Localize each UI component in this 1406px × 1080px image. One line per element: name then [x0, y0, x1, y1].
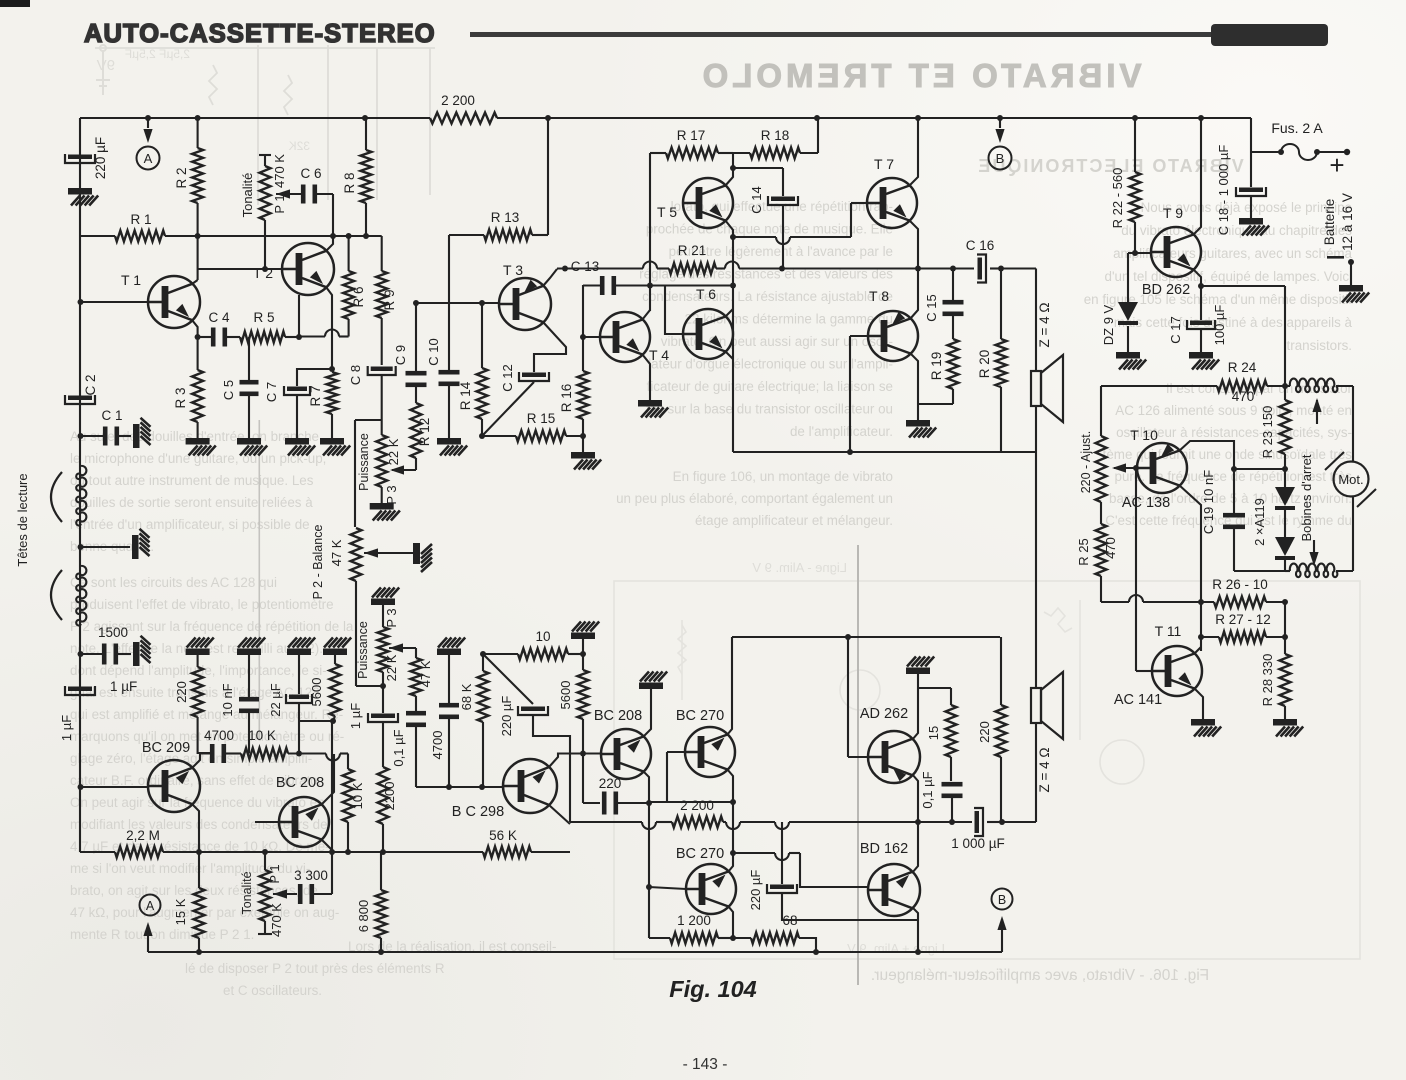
inverted ground 220 branch [186, 638, 214, 656]
wire T3 emitter [534, 322, 566, 372]
capacitor C6 [301, 185, 306, 204]
wire R12 to P3 wiper [392, 469, 416, 471]
resistor R16 [582, 337, 584, 371]
wire R5 line to R6 [299, 335, 325, 337]
node A lower with arrow [140, 895, 161, 916]
ground below R3 [186, 438, 216, 456]
svg-text:R 9: R 9 [382, 289, 397, 310]
wire T2 emitter stub to R5 node [298, 295, 300, 337]
wire BD162 emitter [912, 907, 918, 952]
potentiometer P3 lower Puissance 22K [382, 605, 384, 627]
transistor T10 AC138 [1137, 443, 1187, 493]
wire BC208a collector [321, 754, 334, 805]
capacitor 4700 first [210, 744, 215, 763]
ground below T11 [1191, 719, 1221, 737]
svg-text:22 µF: 22 µF [268, 683, 283, 717]
wire T7 base step [851, 202, 867, 204]
node A with arrow [147, 118, 149, 128]
bleed ghost figure frame lower right [614, 581, 1360, 959]
wire BC298 base line [416, 786, 504, 788]
svg-text:R 15: R 15 [527, 411, 556, 426]
wire T5 emitter rail [725, 220, 733, 237]
svg-text:BC 270: BC 270 [676, 846, 724, 862]
svg-text:Ce sont les circuits des AC 12: Ce sont les circuits des AC 128 qui [70, 575, 277, 590]
svg-text:1 µF: 1 µF [59, 715, 74, 741]
svg-text:lé de disposer P 2 tout près d: lé de disposer P 2 tout près des élément… [185, 961, 445, 976]
resistor R5 [240, 332, 285, 343]
bleed ghost wires top left [95, 45, 435, 205]
wire bottom rail upper block [733, 451, 1036, 453]
svg-text:P 1: P 1 [267, 864, 282, 883]
wire T9 emitter node [1193, 269, 1201, 286]
wire lower bias line R26 [1101, 601, 1129, 603]
wire speaker bus right [1035, 406, 1037, 688]
svg-text:0,1 µF: 0,1 µF [391, 729, 406, 766]
capacitor C10 [439, 370, 460, 375]
svg-text:470: 470 [1232, 389, 1255, 404]
svg-text:En figure 106, un montage de v: En figure 106, un montage de vibrato [673, 469, 893, 484]
wire BC298 collector [549, 754, 600, 768]
svg-text:T 4: T 4 [649, 347, 669, 363]
resistor 220 output [1000, 637, 1002, 705]
transistor T5 [683, 178, 733, 228]
wire lower speaker to rail [1035, 723, 1037, 822]
wire R17 R18 junction to C14 [732, 153, 734, 168]
wire C13 to T4 base column [582, 285, 584, 337]
potentiometer P3 Puissance 22K upper [376, 435, 387, 487]
wire T7 emitter [909, 220, 918, 269]
svg-text:BD 162: BD 162 [860, 841, 908, 857]
svg-text:ou tout autre instrument de mu: ou tout autre instrument de musique. Les [70, 473, 314, 488]
ground below C5 [237, 438, 267, 456]
wire between heads [80, 546, 130, 548]
wire R24 line [1101, 385, 1217, 387]
inverted ground 10-5600 node [571, 622, 599, 640]
svg-text:R 25: R 25 [1076, 538, 1091, 565]
svg-text:T 9: T 9 [1163, 205, 1183, 221]
inverted ground BC208b [639, 672, 667, 690]
svg-text:fait sur la base du transistor: fait sur la base du transistor oscillate… [646, 402, 893, 417]
svg-text:R 12: R 12 [417, 418, 432, 447]
svg-text:4700: 4700 [204, 728, 234, 743]
resistor R1 [80, 235, 115, 237]
wire T5 emitter to T7 base line [733, 236, 776, 238]
wire T1 base [80, 301, 148, 303]
wire T3 collector [543, 269, 557, 286]
ground below DZ9V [1116, 352, 1146, 370]
ground below C18 [1239, 218, 1269, 236]
svg-text:BC 208: BC 208 [276, 775, 324, 791]
svg-text:220 µF: 220 µF [93, 137, 108, 179]
battery minus terminal [1327, 256, 1344, 259]
capacitor 0.1uF output [950, 757, 952, 781]
wire R21 line [557, 267, 643, 269]
svg-text:2,5µF 2,5µF: 2,5µF 2,5µF [125, 47, 190, 61]
node B lower with arrow [992, 889, 1013, 910]
resistor R23 150 [1284, 386, 1286, 400]
capacitor C19 10nF [1233, 469, 1235, 513]
resistor 10K horizontal [241, 748, 288, 759]
wire BD162 collector [912, 822, 918, 873]
svg-text:Puissance: Puissance [357, 433, 371, 491]
wire BC270a collector [727, 769, 733, 802]
wire T2 emitter down [326, 287, 332, 369]
capacitor C2 on left bus [68, 396, 92, 401]
svg-text:étage amplificateur et mélange: étage amplificateur et mélangeur. [695, 513, 893, 528]
svg-text:produisent l'effet de vibrato,: produisent l'effet de vibrato, le potent… [70, 597, 334, 612]
wire 10K line to verticals [288, 752, 326, 754]
svg-text:9V: 9V [97, 57, 115, 74]
svg-text:15 K: 15 K [173, 898, 188, 925]
bleed ghost labels top [125, 47, 190, 61]
svg-text:P 1: P 1 [272, 194, 287, 213]
ground below T8 [917, 404, 919, 420]
capacitor C14 [771, 197, 795, 202]
svg-text:T 8: T 8 [869, 288, 889, 304]
svg-text:Fig. 106. - Vibrato, avec ampl: Fig. 106. - Vibrato, avec amplificateur-… [871, 967, 1209, 984]
title end black bar [1211, 24, 1328, 46]
svg-text:B C 298: B C 298 [452, 804, 504, 820]
transistor BC298 [503, 759, 557, 813]
inverted ground above P3 lower [371, 588, 399, 606]
capacitor C4 [198, 336, 211, 338]
svg-text:2 ×A119: 2 ×A119 [1252, 498, 1267, 546]
svg-text:C 19 10 nF: C 19 10 nF [1201, 470, 1216, 534]
inverted ground 4700 branch [437, 638, 465, 656]
resistor 68 [733, 937, 751, 939]
wire R21 line right [716, 267, 725, 269]
bleed ghost battery 9V top left [96, 45, 110, 95]
svg-text:47 K: 47 K [418, 660, 433, 687]
svg-text:R 5: R 5 [253, 310, 274, 325]
svg-text:10 K: 10 K [350, 782, 365, 809]
ground below C10 [437, 438, 467, 456]
inverted ground AD262 [906, 657, 934, 675]
svg-text:et C oscillateurs.: et C oscillateurs. [223, 983, 322, 998]
svg-text:Têtes de lecture: Têtes de lecture [15, 473, 30, 566]
wire T4 emitter to ground [642, 354, 650, 400]
resistor 2.2M [115, 847, 163, 858]
resistor R22 560 [1134, 118, 1136, 172]
ground below battery minus [1339, 285, 1369, 303]
svg-text:R 18: R 18 [761, 128, 790, 143]
page corner mark [0, 0, 30, 7]
svg-text:lateur d'orgue électronique ou: lateur d'orgue électronique ou sur l'amp… [648, 357, 893, 372]
transistor T9 BD262 [1151, 227, 1201, 277]
transistor T11 AC141 [1152, 646, 1202, 696]
svg-text:C 7: C 7 [264, 382, 279, 402]
capacitor C17 100uF [1200, 286, 1202, 320]
wire T1 collector [192, 280, 198, 284]
tape head coil upper [76, 466, 86, 526]
potentiometer P1 lower Tonalite 470K [264, 852, 266, 870]
node B upper with arrow [999, 118, 1001, 128]
wire P2 wiper to ground [364, 548, 378, 557]
svg-text:R 23 150: R 23 150 [1260, 406, 1275, 459]
resistor 10 [518, 649, 568, 660]
resistor R27 12 [1201, 636, 1219, 638]
svg-text:transistors.: transistors. [1287, 338, 1352, 353]
svg-text:47 K: 47 K [329, 539, 344, 566]
svg-text:C 17: C 17 [1168, 316, 1183, 343]
wire 10 line [483, 653, 518, 655]
wire rail y236 [198, 235, 382, 237]
svg-text:AUTO-CASSETTE-STEREO: AUTO-CASSETTE-STEREO [84, 20, 436, 48]
wire top supply rail [80, 117, 430, 119]
wire BC208a emitter [321, 839, 332, 850]
svg-text:R 22 - 560: R 22 - 560 [1110, 168, 1125, 229]
bleed caption Fig. 106 [871, 967, 1209, 984]
svg-text:R 14: R 14 [458, 381, 473, 410]
transistor T4 [600, 312, 650, 362]
svg-text:1500: 1500 [98, 625, 128, 640]
transistor T2 [282, 243, 334, 295]
svg-text:10 nF: 10 nF [220, 683, 235, 716]
ground below R7 [320, 438, 350, 456]
svg-text:T 2: T 2 [253, 265, 273, 281]
capacitor 1uF on left bus [68, 687, 92, 692]
capacitor 22uF [298, 655, 300, 694]
wire to speaker 1 [1001, 267, 1036, 269]
wire P2 P3 feed node [355, 419, 382, 421]
resistor 1200 [649, 937, 670, 939]
wire BC209 collector [192, 754, 210, 769]
capacitor C16 [953, 267, 974, 269]
wire R13 branch [449, 234, 484, 236]
svg-text:DZ 9 V: DZ 9 V [1101, 304, 1116, 345]
wire T8 collector [910, 269, 918, 320]
wire T2 base [198, 268, 283, 270]
wire x649 column [648, 802, 650, 938]
wire T2 collector [326, 236, 333, 251]
wire R26 R27 link [1200, 602, 1202, 651]
wire 2200 to R13 vertical [547, 118, 549, 235]
resistor R26 10 [1214, 597, 1266, 608]
transistor T1 [148, 276, 200, 328]
diodes 2xA119 [1284, 469, 1286, 487]
svg-text:C 2: C 2 [83, 374, 98, 395]
wire T9 base [1128, 252, 1152, 254]
svg-text:220: 220 [599, 776, 622, 791]
svg-text:2 200: 2 200 [441, 93, 475, 108]
capacitor C18 1000uF [1250, 152, 1252, 187]
wire BC270a emitter riser [727, 637, 732, 735]
wire 15 branch [918, 687, 951, 689]
resistor R15 [516, 431, 566, 442]
arrow into upper coil [1316, 400, 1318, 424]
wire C10 branch [448, 235, 450, 370]
svg-text:condensateurs. La résistance a: condensateurs. La résistance ajustable d… [642, 289, 893, 304]
resistor R20 [1000, 269, 1002, 340]
svg-text:A: A [146, 899, 155, 913]
capacitor C7 [297, 369, 332, 386]
transistor T7 [867, 178, 917, 228]
svg-text:C 1: C 1 [101, 408, 122, 423]
resistor 47K lower [411, 658, 422, 696]
svg-text:de l'amplificateur.: de l'amplificateur. [790, 424, 893, 439]
wire T3 base line [416, 302, 500, 304]
capacitor C1 [80, 435, 103, 437]
wire wiper riser x332 [331, 721, 333, 894]
wire lower rail y852 [80, 851, 115, 853]
svg-text:1 µF: 1 µF [348, 703, 363, 729]
svg-text:T 3: T 3 [503, 262, 523, 278]
svg-text:T 5: T 5 [657, 204, 677, 220]
svg-text:Fus. 2 A: Fus. 2 A [1271, 120, 1323, 136]
arrow into lower coil [1313, 540, 1315, 562]
transistor BC208 second [601, 729, 651, 779]
capacitor 220uF lower [483, 654, 533, 704]
wire P1 lower wiper [273, 889, 287, 898]
svg-text:1 200: 1 200 [677, 913, 711, 928]
bleed ghost text Ligne Alim 9V [752, 560, 847, 575]
svg-text:mais cette fois destiné à des: mais cette fois destiné à des appareils … [1114, 315, 1353, 330]
transistor T6 [683, 309, 733, 359]
wire BC208a base stub [255, 821, 279, 823]
ground right of C1 [133, 418, 151, 448]
ground right of 1500 [133, 636, 151, 666]
svg-text:R 13: R 13 [491, 210, 520, 225]
svg-text:2,2 M: 2,2 M [126, 828, 160, 843]
svg-text:5600: 5600 [558, 681, 573, 710]
svg-text:R 2: R 2 [174, 167, 189, 188]
svg-text:T 10: T 10 [1130, 427, 1158, 443]
svg-text:Tonalité: Tonalité [240, 173, 255, 218]
svg-text:5600: 5600 [309, 678, 324, 707]
svg-text:C 15: C 15 [924, 294, 939, 321]
svg-text:470 K: 470 K [269, 903, 284, 937]
resistor 15K [198, 852, 200, 888]
wire BC209 emitter [192, 804, 199, 852]
svg-text:R 24: R 24 [1228, 360, 1257, 375]
svg-text:C 14: C 14 [749, 186, 764, 213]
wire BD162 base [733, 852, 775, 854]
wire AD262 emitter [912, 774, 918, 822]
transistor BC208 first [279, 797, 329, 847]
svg-text:10 K: 10 K [248, 728, 276, 743]
svg-text:AD 262: AD 262 [860, 706, 908, 722]
svg-text:l'entrée d'un amplificateur, s: l'entrée d'un amplificateur, si possible… [70, 517, 310, 532]
wire motor bottom to lower coil [1352, 497, 1354, 571]
wire T7 collector [909, 118, 918, 186]
resistor 5600 branch [334, 655, 336, 664]
wire AD262 collector to ground [912, 688, 918, 740]
svg-text:220 µF: 220 µF [499, 696, 514, 737]
resistor R21 [669, 263, 716, 274]
svg-text:470 K: 470 K [272, 154, 287, 188]
svg-text:Batterie: Batterie [1322, 199, 1337, 246]
capacitor C15 [952, 269, 954, 301]
wire BC208b emitter [643, 771, 649, 802]
resistor R13 [484, 230, 532, 241]
wire mid rail right [723, 821, 726, 823]
capacitor 10nF [248, 655, 250, 697]
svg-text:C 13: C 13 [571, 259, 600, 274]
title rule line [470, 32, 1212, 37]
capacitor C13 [583, 284, 600, 286]
svg-text:C 16: C 16 [966, 238, 995, 253]
capacitor 1uF lower [382, 686, 384, 713]
wire BC208b collector to ground [643, 689, 651, 737]
resistor R6 [348, 236, 350, 271]
svg-text:B: B [998, 893, 1006, 907]
svg-text:C 4: C 4 [208, 310, 230, 325]
capacitor 4700 lower [448, 655, 450, 703]
svg-text:R 26 - 10: R 26 - 10 [1212, 577, 1268, 592]
resistor 2200 vertical [378, 767, 389, 824]
svg-text:C 6: C 6 [300, 166, 321, 181]
svg-text:B: B [996, 151, 1005, 166]
svg-text:220 - Ajust.: 220 - Ajust. [1079, 431, 1093, 494]
wire T6 collector [725, 309, 733, 317]
svg-text:C 5: C 5 [221, 380, 236, 400]
svg-text:AC 141: AC 141 [1114, 692, 1162, 708]
wire T8 emitter [910, 353, 918, 404]
wire T9 collector [1193, 118, 1201, 235]
svg-text:470: 470 [1103, 537, 1118, 559]
svg-text:R 27 - 12: R 27 - 12 [1215, 612, 1271, 627]
fuse Fus 2A [1250, 118, 1252, 152]
ground below R28 [1273, 719, 1303, 737]
wire x733 to node 853 [732, 802, 734, 853]
svg-text:un peu plus élaboré, comportan: un peu plus élaboré, comportant égalemen… [616, 491, 893, 506]
wire BC270a base [666, 752, 668, 802]
svg-text:100 µF: 100 µF [1212, 305, 1227, 346]
svg-text:Bobines d'arret: Bobines d'arret [1299, 454, 1314, 541]
svg-text:ficateur de guitare électrique: ficateur de guitare électrique; la liais… [647, 379, 893, 394]
svg-text:15: 15 [926, 726, 941, 740]
svg-text:BC 209: BC 209 [142, 740, 190, 756]
svg-text:R 3: R 3 [173, 387, 188, 408]
wire T11 emitter [1194, 688, 1203, 719]
resistor 220 branch [197, 655, 199, 667]
wire T4 collector [642, 310, 650, 320]
ground below T4 [638, 400, 668, 418]
svg-text:mente R tout on diminue P 2 1.: mente R tout on diminue P 2 1. [70, 927, 254, 942]
svg-text:R 20: R 20 [977, 350, 992, 379]
svg-text:1 µF: 1 µF [110, 679, 137, 694]
wire T6 base [665, 286, 683, 335]
inverted ground 5600 branch [323, 638, 351, 656]
bleed mirrored subheading VIBRATO ELECTRONIQUE [976, 156, 1243, 176]
potentiometer 220 Ajust [1100, 386, 1102, 436]
wire T5 collector [725, 168, 733, 186]
svg-text:2200: 2200 [382, 782, 397, 811]
capacitor C5 [248, 337, 250, 380]
zener diode DZ9V [1127, 253, 1129, 302]
ground below C7 [285, 438, 315, 456]
svg-text:0,1 µF: 0,1 µF [920, 771, 935, 808]
svg-text:2 200: 2 200 [680, 798, 714, 813]
resistor R19 [952, 316, 954, 339]
svg-text:AC 138: AC 138 [1122, 495, 1170, 511]
resistor 15 [950, 688, 952, 705]
svg-text:220 µF: 220 µF [748, 870, 763, 911]
resistor 68K [482, 654, 484, 671]
transistor BC270 lower [686, 864, 736, 914]
choke coil lower Bobines [1290, 564, 1338, 578]
svg-text:R 21: R 21 [678, 243, 707, 258]
wire T5 T4 vertical [649, 153, 651, 203]
inverted ground 10nF branch [237, 638, 265, 656]
transistor T3 [499, 278, 551, 330]
ground below 220uF [68, 188, 98, 206]
svg-text:Tonalité: Tonalité [240, 871, 254, 914]
svg-text:Fig. 104: Fig. 104 [669, 976, 757, 1002]
resistor R7 [327, 372, 338, 414]
resistor R3 [197, 337, 199, 370]
resistor R8 [365, 118, 367, 150]
